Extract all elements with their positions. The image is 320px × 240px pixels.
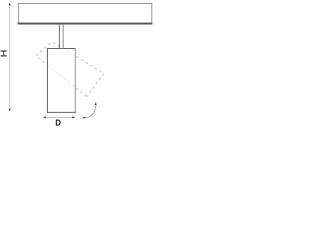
rotation arc arrow: [85, 106, 96, 118]
dimension H label: [1, 50, 7, 56]
dashed tilted body outline (rotation envelope): [36, 42, 104, 97]
stem left line: [58, 24, 60, 48]
dashed outline upper long side: [52, 42, 104, 74]
track bottom edge (thicker): [18, 23, 153, 25]
dimension D right arrowhead: [72, 116, 75, 118]
dimension D left arrowhead: [43, 116, 46, 118]
rotation arrow top head: [95, 102, 97, 105]
track (ceiling rail): [18, 4, 151, 24]
dashed outline lower long side: [36, 56, 87, 97]
dashed outline lower-right short side: [87, 74, 104, 97]
dimension D label: [56, 120, 61, 126]
dimension H line: [9, 5, 11, 110]
dimension H bottom arrowhead: [9, 109, 11, 112]
rotation arrow left head: [82, 117, 85, 119]
dimension H top arrowhead: [9, 3, 11, 6]
stem right line: [62, 24, 64, 48]
lamp body (spotlight cylinder): [47, 48, 76, 113]
dimension D line: [45, 116, 73, 118]
dashed outline upper-left short side: [36, 42, 52, 56]
